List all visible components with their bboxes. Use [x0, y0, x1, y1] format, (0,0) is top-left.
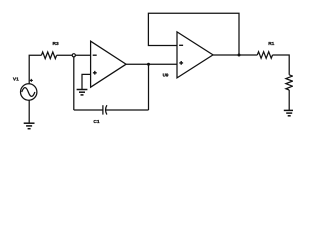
resistor (load, vertical) [286, 75, 293, 90]
svg-text:V1: V1 [13, 76, 19, 82]
wire C1 row (left of C1) [74, 109, 103, 111]
svg-text:U9: U9 [163, 72, 169, 77]
wire C1 row (right of C1) [106, 109, 149, 111]
op-amp U9 (second stage) [177, 32, 213, 78]
ground (op-amp noninverting input) [77, 90, 88, 95]
AC source V1 [21, 79, 37, 100]
capacitor C1 [103, 105, 107, 114]
svg-text:R1: R1 [268, 41, 274, 47]
wire feedback loop (output to inverting input) [148, 13, 239, 55]
wire load resistor to ground [288, 90, 290, 110]
wire op-amp1 output to op-amp2 + input [126, 63, 177, 65]
wire V1 bottom to ground [28, 100, 30, 123]
svg-text:C1: C1 [93, 119, 99, 125]
wire V1 top to R3 row [29, 55, 41, 84]
ground (below V1) [24, 123, 35, 129]
op-amp U1 (first stage, integrator) [91, 41, 127, 87]
junction dot (feedback tap) [147, 63, 150, 66]
resistor R3 [41, 52, 56, 59]
wire node down to C1 row [73, 57, 75, 110]
node (open junction on R3 output) [72, 54, 75, 57]
junction dot (output node) [238, 54, 241, 57]
wire op-amp2 output to R1 [213, 54, 257, 56]
ground (output load) [284, 110, 295, 115]
wire R3 to op-amp inverting input [57, 54, 91, 56]
wire + input to ground [82, 74, 91, 89]
wire R1 to load resistor [273, 55, 290, 75]
svg-text:R3: R3 [53, 41, 59, 47]
resistor R1 [257, 52, 272, 59]
wire junction down to C1 row [148, 64, 150, 110]
